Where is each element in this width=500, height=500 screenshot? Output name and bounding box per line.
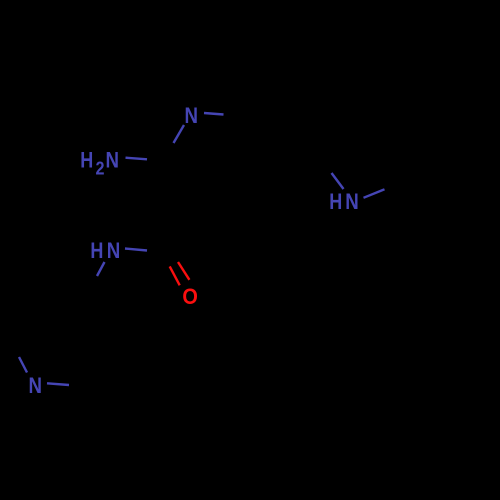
svg-text:H: H: [329, 189, 342, 214]
wire: bond H2N to C2 (blue half): [126, 158, 148, 160]
svg-text:N: N: [28, 373, 42, 398]
svg-text:N: N: [106, 147, 120, 172]
svg-text:2: 2: [96, 157, 105, 178]
svg-text:H: H: [90, 238, 103, 263]
wire: bond N1 to C2 (down-left half, blue): [174, 125, 185, 143]
wire: C=O double bond line 1 (red half): [170, 266, 180, 285]
wire: bond indole NH up-right (blue half): [364, 189, 385, 198]
wire: bond pyridine N up-left (blue half): [19, 357, 27, 373]
wire: C=O double bond line 2 (red half): [178, 262, 189, 280]
wire: bond indole NH up-left (blue half): [332, 173, 344, 189]
wire: bond amide NH to carbonyl C (blue half): [125, 249, 147, 251]
svg-text:N: N: [107, 238, 121, 263]
svg-text:O: O: [182, 284, 198, 309]
svg-text:H: H: [80, 147, 93, 172]
wire: bond amide NH down-left (blue half): [97, 262, 105, 276]
svg-text:N: N: [345, 189, 359, 214]
wire: bond pyridine N to right (blue half): [47, 383, 69, 385]
svg-text:N: N: [184, 103, 198, 128]
wire: bond N1 to C (right half, blue): [204, 113, 224, 115]
